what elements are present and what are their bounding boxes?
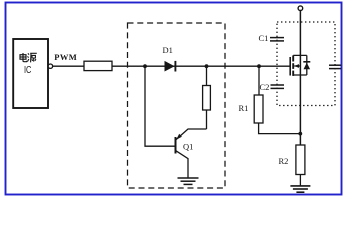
svg-text:Q1: Q1 <box>183 142 193 152</box>
svg-text:IC: IC <box>24 64 32 76</box>
svg-text:C1: C1 <box>259 33 269 43</box>
svg-text:R2: R2 <box>279 156 289 166</box>
svg-text:C2: C2 <box>260 82 270 92</box>
svg-text:PWM: PWM <box>54 52 77 62</box>
svg-text:R1: R1 <box>239 103 249 113</box>
svg-text:D1: D1 <box>163 45 173 55</box>
